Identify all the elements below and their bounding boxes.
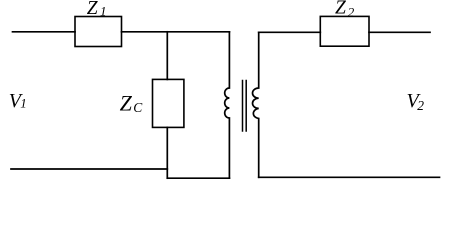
impedance ZC bbox=[153, 79, 184, 127]
label Z2 bbox=[335, 0, 355, 19]
svg-text:Z: Z bbox=[335, 0, 346, 19]
wire bottom-left return bbox=[11, 168, 167, 170]
transformer secondary winding L2 bbox=[253, 32, 259, 177]
svg-text:Z: Z bbox=[120, 91, 133, 116]
label V2 bbox=[407, 90, 425, 113]
label ZC bbox=[120, 91, 144, 116]
wire top-right from secondary bbox=[259, 31, 321, 33]
wire bottom-right return bbox=[259, 176, 440, 178]
impedance Z2 bbox=[320, 16, 369, 46]
wire top-left input bbox=[13, 31, 76, 33]
svg-text:2: 2 bbox=[348, 4, 355, 19]
transformer primary winding L1 bbox=[225, 32, 230, 178]
svg-text:C: C bbox=[133, 100, 143, 115]
svg-text:Z: Z bbox=[87, 0, 98, 19]
label V1 bbox=[9, 90, 27, 112]
svg-text:1: 1 bbox=[20, 96, 27, 111]
wire Zc top branch bbox=[166, 32, 168, 80]
label Z1 bbox=[87, 0, 107, 19]
svg-text:2: 2 bbox=[417, 98, 424, 113]
svg-text:1: 1 bbox=[100, 4, 107, 19]
wire top-right output bbox=[369, 31, 430, 33]
wire bottom connector bbox=[167, 177, 229, 179]
impedance Z1 bbox=[75, 17, 122, 47]
wire top middle bbox=[122, 31, 230, 33]
transformer core bbox=[243, 81, 247, 132]
wire Zc bottom branch bbox=[166, 127, 168, 178]
